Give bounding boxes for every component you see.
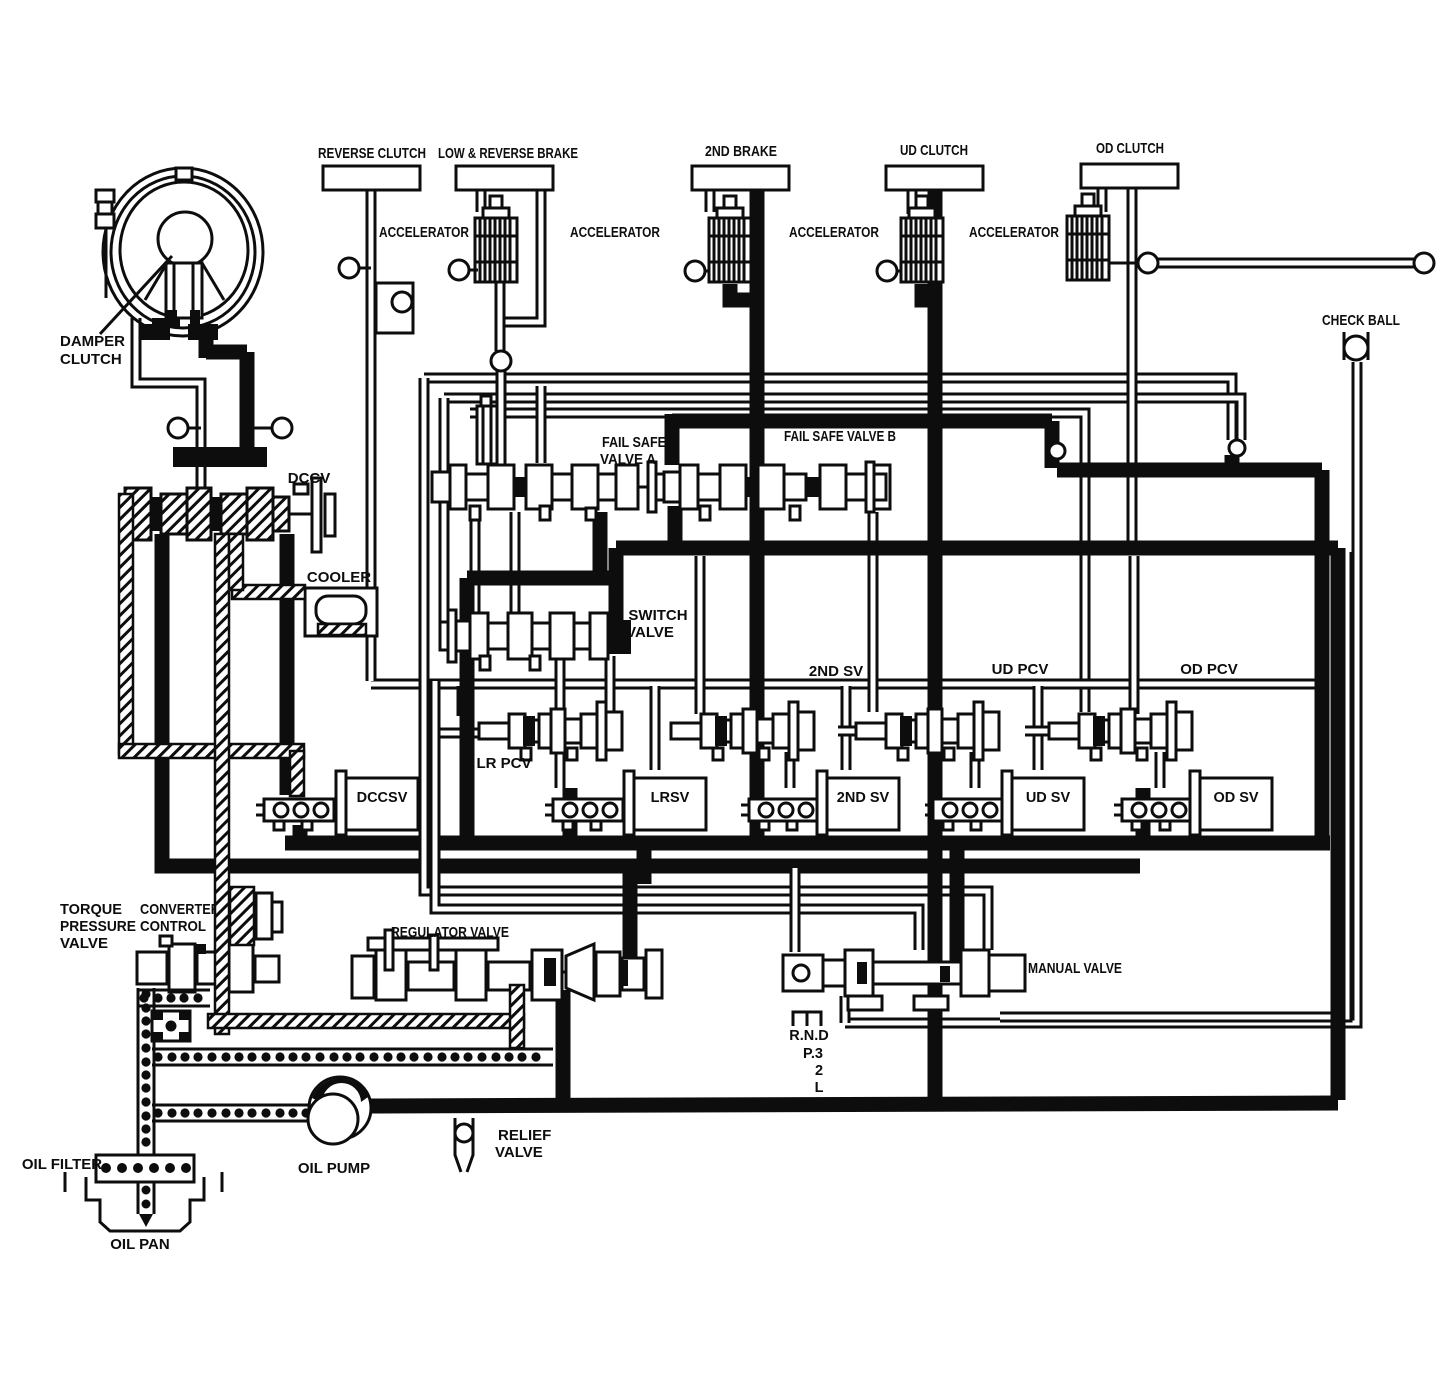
wire manual valve bottom stub xyxy=(840,996,851,1023)
node low-rev junction ball xyxy=(491,351,511,371)
port OD far stub circle xyxy=(1414,253,1434,273)
label OD SV xyxy=(1213,790,1258,806)
wire thick switch supply xyxy=(467,571,618,586)
svg-text:2ND SV: 2ND SV xyxy=(837,790,890,806)
valve fail safe valve A xyxy=(432,462,668,520)
svg-text:VALVE: VALVE xyxy=(60,935,108,952)
component cooler xyxy=(305,588,377,636)
wire supply drop to OD PCV row xyxy=(1129,556,1140,714)
svg-text:P.3: P.3 xyxy=(803,1046,823,1062)
svg-text:ACCELERATOR: ACCELERATOR xyxy=(969,225,1059,241)
wire thick OD section right frame xyxy=(1315,470,1330,836)
label UD SV xyxy=(1026,790,1071,806)
svg-text:CHECK BALL: CHECK BALL xyxy=(1322,312,1400,329)
wire loop to manual valve inner xyxy=(435,681,919,950)
wire line-B drop to switch valve xyxy=(439,398,450,650)
valve UD PCV xyxy=(856,702,999,760)
wire low-rev brake box left lead xyxy=(476,190,487,212)
solenoid valve UD SV xyxy=(925,771,1084,835)
label 2ND SV upper xyxy=(809,663,863,680)
port converter circle left xyxy=(168,418,201,438)
label OIL FILTER xyxy=(22,1156,102,1173)
svg-text:ACCELERATOR: ACCELERATOR xyxy=(570,225,660,241)
label MANUAL VALVE xyxy=(1028,960,1122,977)
solenoid accelerator (UD) xyxy=(901,196,943,282)
wire LR PCV to LRSV flange xyxy=(555,752,566,788)
solenoid accelerator (2nd brake) xyxy=(709,196,751,282)
pipe suction elbow block xyxy=(152,1011,190,1041)
pipe hatched bottom horizontal xyxy=(208,1014,524,1028)
wire thick bus to regulator xyxy=(623,864,638,975)
valve reverse bypass loop xyxy=(376,283,413,333)
wire UD clutch box left lead xyxy=(907,190,918,214)
wire thick FSV-B to supply bus xyxy=(668,506,683,548)
wire thick pump output bus xyxy=(366,1103,1338,1106)
wire thick UD pressure line xyxy=(928,190,943,1100)
wire frame drop OD xyxy=(1033,686,1044,770)
pipe hatched drop to DCCSV flange xyxy=(290,751,304,796)
svg-text:L: L xyxy=(815,1080,824,1096)
svg-text:CLUTCH: CLUTCH xyxy=(60,351,122,368)
pipe suction to oil pump xyxy=(152,1105,312,1121)
wire thick lower bus B from DCCV xyxy=(162,534,1140,866)
valve OD PCV xyxy=(1049,702,1192,760)
node OD junction ball xyxy=(1229,440,1245,456)
svg-text:UD PCV: UD PCV xyxy=(992,661,1049,678)
port 2nd solenoid stub xyxy=(685,261,710,281)
wire frame drop UD xyxy=(841,686,852,770)
valve torque pressure valve xyxy=(137,936,280,992)
svg-text:2ND BRAKE: 2ND BRAKE xyxy=(705,143,777,160)
wire OD stub to check circle xyxy=(1156,258,1414,269)
wire bus tap to fail safe valve A xyxy=(536,386,547,463)
label TORQUE PRESSURE VALVE xyxy=(60,901,136,952)
svg-text:2ND SV: 2ND SV xyxy=(809,663,863,680)
wire thick node pedestal left xyxy=(1045,421,1060,468)
wire UD PCV left stub xyxy=(838,726,864,737)
pipe suction long horizontal xyxy=(152,1049,553,1065)
pipe hatched left main vertical xyxy=(119,494,133,754)
wire thick UD solenoid elbow xyxy=(922,284,929,300)
svg-text:OD CLUTCH: OD CLUTCH xyxy=(1096,140,1164,157)
label REVERSE CLUTCH xyxy=(318,145,426,162)
port OD solenoid stub xyxy=(1109,253,1158,273)
label OIL PAN xyxy=(110,1236,169,1253)
label R.N.D xyxy=(789,1028,828,1044)
wire thick ODSV drain xyxy=(1136,788,1151,843)
wire thick mid distribution xyxy=(1057,463,1322,478)
wire FSV-A to switch valve 1 xyxy=(470,512,481,614)
node 2nd brake box xyxy=(692,166,789,190)
wire frame drop LR xyxy=(457,686,468,716)
svg-text:UD SV: UD SV xyxy=(1026,790,1071,806)
svg-text:LRSV: LRSV xyxy=(651,790,690,806)
wire converter hub to DCCV xyxy=(136,318,201,494)
node OD clutch box xyxy=(1081,164,1178,188)
wire bus line-C to UD PCV xyxy=(470,413,1085,712)
wire OD PCV to OD SV flange xyxy=(1155,752,1166,788)
label CONVERTER CONTROL xyxy=(140,901,220,935)
wire bus line-A to OD junction xyxy=(424,378,1232,440)
wire UD PCV to UD SV flange xyxy=(970,752,981,788)
wire drop to manual valve left xyxy=(790,868,801,952)
svg-text:UD CLUTCH: UD CLUTCH xyxy=(900,142,968,159)
wire thick DCCSV drain xyxy=(293,825,308,843)
svg-text:OIL PAN: OIL PAN xyxy=(110,1236,169,1253)
solenoid accelerator (low-reverse) xyxy=(475,196,517,282)
component torque converter xyxy=(103,168,263,340)
wire thick bus to manual valve xyxy=(950,846,965,975)
label RELIEF VALVE xyxy=(495,1127,551,1161)
svg-text:OIL PUMP: OIL PUMP xyxy=(298,1160,370,1177)
wire node to fail safe valve A xyxy=(496,371,507,467)
wire thick main supply bus xyxy=(616,541,1338,556)
label CHECK BALL xyxy=(1322,312,1400,329)
wire supply drop to 2nd SV row xyxy=(695,556,706,714)
svg-text:REGULATOR VALVE: REGULATOR VALVE xyxy=(391,924,509,941)
pipe hatched left bottom horizontal xyxy=(119,744,304,758)
wire thick regulator to pump bus xyxy=(556,990,571,1106)
wire thick upper distribution xyxy=(672,414,1052,429)
component oil filter xyxy=(96,1155,194,1227)
wire loop to manual valve outer xyxy=(424,378,988,950)
pipe suction top horizontal xyxy=(138,990,210,1006)
symbol shifter gate xyxy=(793,1012,821,1026)
wire thick lower bus A xyxy=(285,836,1330,851)
wire low-rev brake box right lead xyxy=(501,190,541,322)
component FSV-A pilot solenoid xyxy=(477,396,497,464)
pipe hatched long vertical to regulator area xyxy=(215,534,229,1034)
port UD solenoid stub xyxy=(877,261,902,281)
node reverse clutch box xyxy=(323,166,420,190)
valve 2ND SV regulator xyxy=(671,702,814,760)
svg-text:VALVE A: VALVE A xyxy=(600,451,656,468)
wire OD clutch main line down xyxy=(1127,188,1138,541)
wire switch valve to LR PCV 2 xyxy=(605,656,616,714)
valve relief valve xyxy=(455,1118,473,1172)
wire 2nd brake box left lead xyxy=(705,190,716,212)
pipe suction vertical to filter xyxy=(138,988,154,1157)
wire thick 2nd brake pressure line xyxy=(750,190,765,843)
svg-text:R.N.D: R.N.D xyxy=(789,1028,828,1044)
svg-text:2: 2 xyxy=(815,1063,823,1079)
svg-text:DCCSV: DCCSV xyxy=(357,790,408,806)
label ACCELERATOR 4 xyxy=(969,225,1059,241)
wire PCV section top bus xyxy=(371,679,1316,690)
svg-text:COOLER: COOLER xyxy=(307,569,371,586)
svg-text:FAIL SAFE: FAIL SAFE xyxy=(602,434,666,451)
solenoid valve OD SV xyxy=(1114,771,1272,835)
wire thick converter out 1 xyxy=(199,330,214,358)
svg-text:DCCV: DCCV xyxy=(288,470,331,487)
label 2ND BRAKE xyxy=(705,143,777,160)
label OD PCV xyxy=(1180,661,1238,678)
wire OD clutch box left lead xyxy=(1097,188,1108,212)
svg-text:MANUAL VALVE: MANUAL VALVE xyxy=(1028,960,1122,977)
node UD clutch box xyxy=(886,166,983,190)
node low & reverse brake box xyxy=(456,166,553,190)
label FAIL SAFE VALVE A xyxy=(600,434,666,468)
wire thick bus A-B connector xyxy=(637,846,652,884)
label REGULATOR VALVE xyxy=(391,924,509,941)
label LR PCV xyxy=(476,755,531,772)
pipe hatched cooler feed xyxy=(232,585,305,599)
wire converter left component lead xyxy=(105,228,108,298)
wire thick OD node pedestal xyxy=(1225,455,1240,474)
wire right return line xyxy=(1000,552,1347,1017)
port converter circle right xyxy=(252,418,292,438)
label 2ND SV xyxy=(837,790,890,806)
label OIL PUMP xyxy=(298,1160,370,1177)
wire thick converter out 2 xyxy=(206,345,247,360)
component oil pump xyxy=(308,1077,371,1144)
svg-text:ACCELERATOR: ACCELERATOR xyxy=(789,225,879,241)
component converter left plug xyxy=(96,190,114,228)
svg-text:SWITCH: SWITCH xyxy=(628,607,687,624)
label DCCSV xyxy=(357,790,408,806)
label FAIL SAFE VALVE B xyxy=(784,428,896,445)
wire check ball line down and left xyxy=(845,362,1357,1023)
svg-text:PRESSURE: PRESSURE xyxy=(60,918,136,935)
pipe hatched DCCV to cooler xyxy=(229,534,243,590)
svg-text:CONVERTER: CONVERTER xyxy=(140,901,220,918)
svg-text:VALVE: VALVE xyxy=(626,624,674,641)
port reverse clutch stub xyxy=(339,258,371,278)
wire thick converter out 3 xyxy=(240,352,255,452)
component oil pan xyxy=(65,1172,222,1231)
wire thick left frame down xyxy=(460,578,475,843)
svg-text:LR PCV: LR PCV xyxy=(476,755,531,772)
solenoid valve 2ND SV xyxy=(741,771,899,835)
wire thick switch valve end blob xyxy=(604,620,631,654)
wire thick LRSV drain xyxy=(563,788,578,843)
wire thick right frame down xyxy=(1331,548,1346,1100)
wire thick DCCV inlet band xyxy=(173,447,267,467)
wire thick FSV-A drain xyxy=(593,512,608,578)
wire FSV-B drop to 2nd row xyxy=(868,512,879,712)
svg-text:TORQUE: TORQUE xyxy=(60,901,122,918)
valve switch valve xyxy=(440,610,608,670)
wire 2nd row to 2ND SV flange xyxy=(785,752,796,788)
solenoid valve DCCSV xyxy=(256,771,418,835)
wire reverse clutch feed down xyxy=(366,190,377,681)
wire FSV-A to switch valve 2 xyxy=(510,512,521,614)
svg-text:REVERSE CLUTCH: REVERSE CLUTCH xyxy=(318,145,426,162)
valve regulator valve xyxy=(352,930,662,1000)
label P.3 xyxy=(803,1046,823,1062)
label L xyxy=(815,1080,824,1096)
label COOLER xyxy=(307,569,371,586)
svg-text:OD PCV: OD PCV xyxy=(1180,661,1238,678)
wire thick drop to FSV-B left xyxy=(665,414,680,465)
valve DCCV spool xyxy=(125,478,335,552)
wire switch valve to LR PCV 1 xyxy=(555,656,566,714)
wire stub to LR PCV left xyxy=(427,728,484,739)
wire thick DCCV to DCCSV xyxy=(280,534,295,795)
node distribution junction ball xyxy=(1049,443,1065,459)
wire thick drop to switch valve xyxy=(609,548,624,624)
port low-rev solenoid stub xyxy=(449,260,478,280)
label DCCV xyxy=(288,470,331,487)
wire bus line-B to OD junction xyxy=(444,398,1241,440)
label LOW & REVERSE BRAKE xyxy=(438,145,578,162)
label ACCELERATOR 1 xyxy=(379,225,469,241)
label LRSV xyxy=(651,790,690,806)
wire OD PCV left stub xyxy=(1025,726,1054,737)
label OD CLUTCH xyxy=(1096,140,1164,157)
label 2 xyxy=(815,1063,823,1079)
label UD PCV xyxy=(992,661,1049,678)
label SWITCH VALVE xyxy=(626,607,687,641)
svg-text:FAIL SAFE VALVE B: FAIL SAFE VALVE B xyxy=(784,428,896,445)
valve LR PCV xyxy=(479,702,622,760)
label ACCELERATOR 2 xyxy=(570,225,660,241)
valve fail safe valve B xyxy=(664,462,890,520)
wire frame drop 2ND xyxy=(650,686,661,770)
solenoid accelerator (OD) xyxy=(1067,194,1109,280)
svg-text:ACCELERATOR: ACCELERATOR xyxy=(379,225,469,241)
svg-text:OD SV: OD SV xyxy=(1213,790,1258,806)
label UD CLUTCH xyxy=(900,142,968,159)
label DAMPER CLUTCH xyxy=(60,333,125,368)
leader damper clutch xyxy=(100,256,172,334)
svg-text:DAMPER: DAMPER xyxy=(60,333,125,350)
svg-text:OIL FILTER: OIL FILTER xyxy=(22,1156,102,1173)
label ACCELERATOR 3 xyxy=(789,225,879,241)
wire thick 2nd solenoid elbow xyxy=(730,284,751,300)
solenoid valve LRSV xyxy=(545,771,706,835)
svg-text:CONTROL: CONTROL xyxy=(140,918,206,935)
svg-text:VALVE: VALVE xyxy=(495,1144,543,1161)
valve manual valve xyxy=(783,950,1025,1010)
component check ball xyxy=(1344,332,1368,360)
svg-text:RELIEF: RELIEF xyxy=(498,1127,551,1144)
pipe hatched regulator drop xyxy=(510,985,524,1048)
component converter control xyxy=(230,887,282,945)
svg-text:LOW & REVERSE BRAKE: LOW & REVERSE BRAKE xyxy=(438,145,578,162)
wire solenoid to node xyxy=(495,282,506,351)
